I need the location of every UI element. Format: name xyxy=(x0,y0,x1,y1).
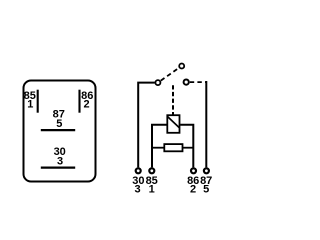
terminal label 86/2 xyxy=(187,175,199,195)
svg-text:5: 5 xyxy=(203,183,209,195)
pin 85 blade xyxy=(37,90,39,113)
wire terminal30-to-contact xyxy=(138,83,155,168)
terminal label 30/3 xyxy=(132,175,144,195)
pin 87 blade xyxy=(41,129,75,131)
svg-text:3: 3 xyxy=(134,183,140,195)
pin 86 blade xyxy=(78,90,80,113)
resistor R (parallel to coil) xyxy=(164,144,182,151)
pin label 30/3 xyxy=(54,146,66,167)
relay body outline (bottom view) xyxy=(24,81,96,182)
svg-text:3: 3 xyxy=(57,155,63,167)
mechanical link armature-to-coil (dashed) xyxy=(172,85,174,114)
dashed link contact-to-87-wire xyxy=(190,81,207,83)
coil K (box with diagonal) xyxy=(167,115,179,133)
resistor wire right xyxy=(183,147,193,149)
svg-text:2: 2 xyxy=(190,183,196,195)
terminal 85 xyxy=(149,168,154,173)
switch arm end circle (floating) xyxy=(179,64,184,69)
coil lead right wire xyxy=(180,125,193,168)
svg-text:2: 2 xyxy=(84,98,90,110)
pin label 86/2 xyxy=(81,90,93,110)
terminal 87 xyxy=(204,168,209,173)
svg-text:1: 1 xyxy=(27,98,33,110)
switch contact circle (87 side) xyxy=(184,80,189,85)
wire 87 vertical xyxy=(205,81,207,167)
svg-text:5: 5 xyxy=(56,118,62,130)
switch contact circle (30 side) xyxy=(155,80,160,85)
terminal 86 xyxy=(191,168,196,173)
switch arm (dashed, open position) xyxy=(161,68,179,81)
pin label 87/5 xyxy=(53,109,65,130)
terminal label 85/1 xyxy=(146,175,158,195)
terminal 30 xyxy=(136,168,141,173)
svg-text:1: 1 xyxy=(149,183,155,195)
terminal label 87/5 xyxy=(200,175,212,195)
resistor wire left xyxy=(152,147,164,149)
pin 30 blade xyxy=(41,167,75,169)
coil lead left wire xyxy=(152,125,167,168)
pin label 85/1 xyxy=(24,90,36,110)
